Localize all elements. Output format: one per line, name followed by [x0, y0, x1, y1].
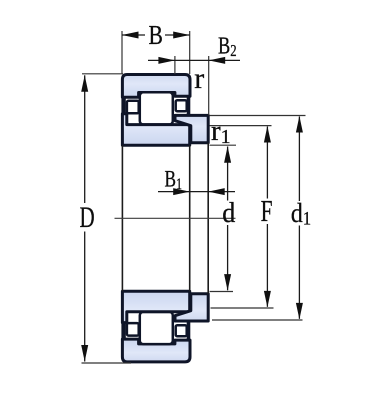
- dimension D extension top: [82, 73, 123, 75]
- dimension line d: [227, 147, 229, 201]
- dimension d extension bottom: [210, 291, 234, 293]
- svg-text:D: D: [80, 200, 95, 234]
- dimension B extension right: [189, 31, 191, 74]
- svg-text:r: r: [194, 62, 204, 95]
- dimension d extension top (under r1): [210, 144, 237, 146]
- svg-text:F: F: [261, 194, 273, 228]
- dimension F extension top: [210, 125, 272, 127]
- svg-text:d: d: [222, 196, 235, 229]
- dimension line B2 (outside arrows): [148, 59, 209, 61]
- dimension B extension left: [121, 31, 123, 74]
- wire: angle ring right face silhouette line: [207, 143, 209, 294]
- wire: B2 right / r extension line: [208, 56, 210, 115]
- dimension line F: [266, 127, 268, 199]
- dimension line D: [84, 75, 86, 203]
- wire: left face silhouette line through bore: [121, 145, 123, 291]
- dimension d1 extension top: [210, 115, 306, 117]
- dimension line B: [122, 34, 145, 36]
- dimension line B1 (outside arrows): [158, 191, 208, 193]
- dimension F extension bottom: [211, 307, 274, 309]
- top bearing section: [122, 75, 208, 146]
- bottom bearing section (mirror): [122, 291, 208, 362]
- svg-text:B: B: [149, 21, 163, 51]
- dimension line d1: [298, 117, 300, 202]
- dimension D extension bottom: [82, 362, 132, 364]
- centerline: [115, 217, 236, 219]
- wire: inner ring right face silhouette line: [189, 145, 191, 291]
- dimension B2 extension left: [174, 56, 176, 74]
- dimension d1 extension bottom: [212, 319, 303, 321]
